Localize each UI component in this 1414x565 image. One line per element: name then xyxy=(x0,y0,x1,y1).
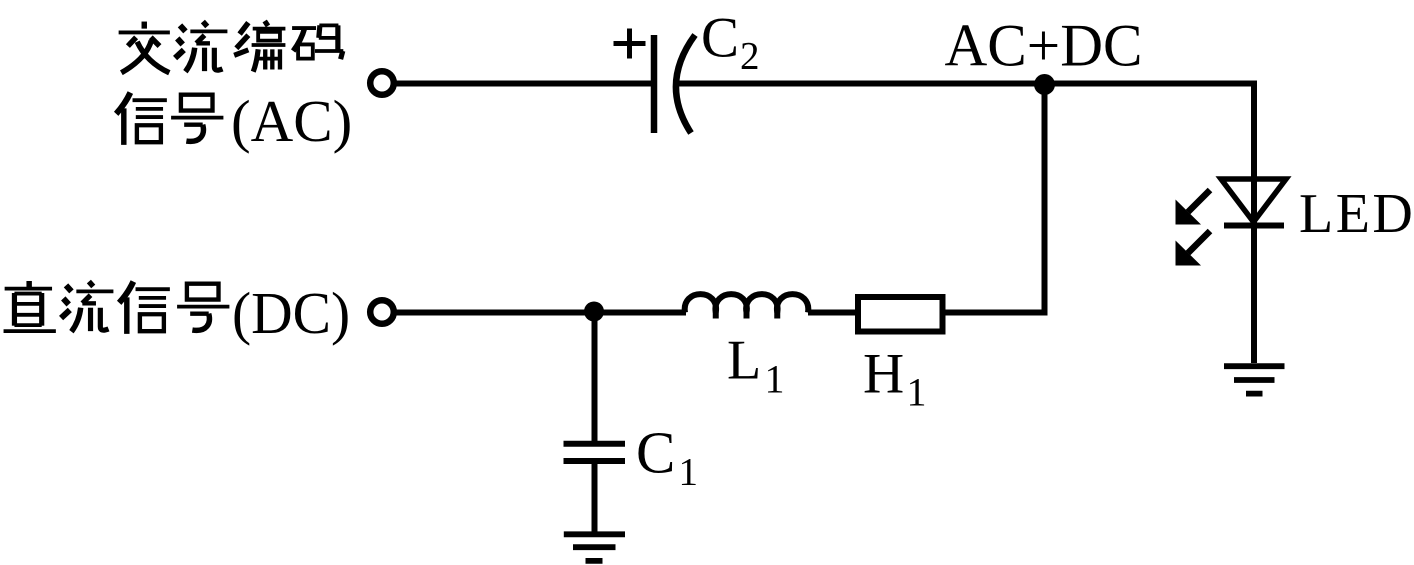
text 号 (DC label) xyxy=(177,284,229,331)
text 编 (AC label line1) xyxy=(234,21,285,72)
text 码 (AC label line1) xyxy=(292,25,343,59)
node C1 junction dot xyxy=(584,302,604,322)
wire node to LED corner xyxy=(1044,81,1254,87)
svg-text:AC+DC: AC+DC xyxy=(945,13,1143,79)
svg-text:C: C xyxy=(701,7,739,70)
terminal DC input xyxy=(370,300,394,324)
wire H1 to riser xyxy=(946,310,1042,316)
text 号 (AC label line2) xyxy=(171,95,223,142)
wire DC terminal to L1 xyxy=(394,310,686,316)
ground at C1 xyxy=(564,534,625,561)
text 流 (DC label) xyxy=(61,282,113,332)
LED arrow 1 xyxy=(1176,190,1211,225)
LED cathode bar xyxy=(1224,223,1284,229)
svg-text:C: C xyxy=(636,420,675,486)
wire riser to node xyxy=(1042,84,1048,316)
svg-text:2: 2 xyxy=(740,35,760,78)
ground at LED xyxy=(1224,366,1285,393)
inductor L1 xyxy=(685,294,809,318)
svg-text:(AC): (AC) xyxy=(231,88,352,154)
node AC+DC junction dot xyxy=(1034,74,1055,95)
wire C1 drop xyxy=(592,312,598,442)
wire LED vertical xyxy=(1251,81,1257,364)
text 流 (AC label line1) xyxy=(175,22,227,72)
wire AC terminal to C2 xyxy=(394,81,652,87)
wire C1 to ground xyxy=(592,463,598,532)
capacitor C1 xyxy=(564,444,626,461)
svg-text:L: L xyxy=(727,330,761,392)
svg-text:1: 1 xyxy=(679,451,699,494)
svg-text:(DC): (DC) xyxy=(232,280,350,346)
LED D1 triangle xyxy=(1221,179,1286,222)
wire C2 to node xyxy=(679,81,1044,87)
text 交 (AC label line1) xyxy=(119,22,170,73)
svg-text:1: 1 xyxy=(765,357,785,402)
capacitor C2 xyxy=(654,35,695,133)
text 直 (DC label) xyxy=(4,281,56,331)
terminal AC input xyxy=(370,71,394,95)
svg-text:1: 1 xyxy=(907,370,927,415)
svg-text:LED: LED xyxy=(1299,183,1414,245)
text 信 (AC label line2) xyxy=(116,93,167,145)
capacitor C2 plus sign xyxy=(614,29,646,59)
wire L1 to H1 xyxy=(808,310,856,316)
svg-text:H: H xyxy=(863,343,904,406)
hall element H1 box xyxy=(858,297,943,332)
LED arrow 2 xyxy=(1176,231,1211,266)
text 信 (DC label) xyxy=(119,282,170,334)
